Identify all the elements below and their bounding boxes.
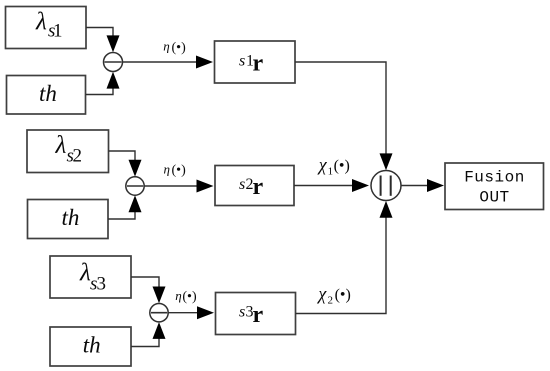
- svg-text:s: s: [239, 176, 245, 193]
- svg-text:s: s: [239, 53, 245, 70]
- svg-text:r: r: [253, 51, 264, 77]
- svg-text:r: r: [253, 174, 264, 200]
- svg-text:λ: λ: [55, 132, 67, 159]
- svg-text:χ: χ: [317, 155, 328, 175]
- svg-text:2: 2: [73, 146, 83, 167]
- svg-text:η: η: [164, 161, 170, 176]
- svg-text:χ: χ: [316, 284, 327, 304]
- svg-text:(•): (•): [334, 158, 350, 175]
- svg-text:(•): (•): [172, 41, 187, 56]
- svg-text:(•): (•): [335, 287, 351, 304]
- svg-text:η: η: [163, 39, 169, 54]
- svg-text:3: 3: [97, 274, 107, 295]
- svg-text:(•): (•): [182, 290, 197, 305]
- svg-text:th: th: [39, 81, 57, 106]
- svg-text:th: th: [83, 333, 101, 358]
- svg-text:s: s: [239, 304, 245, 321]
- svg-text:λ: λ: [35, 9, 47, 36]
- svg-text:2: 2: [328, 295, 334, 307]
- svg-text:Fusion: Fusion: [464, 169, 525, 187]
- svg-text:th: th: [62, 205, 80, 230]
- svg-text:1: 1: [328, 166, 334, 178]
- svg-text:η: η: [175, 288, 181, 303]
- svg-text:(•): (•): [172, 163, 187, 178]
- svg-text:1: 1: [53, 21, 63, 42]
- svg-text:r: r: [253, 302, 264, 328]
- svg-text:OUT: OUT: [479, 189, 509, 207]
